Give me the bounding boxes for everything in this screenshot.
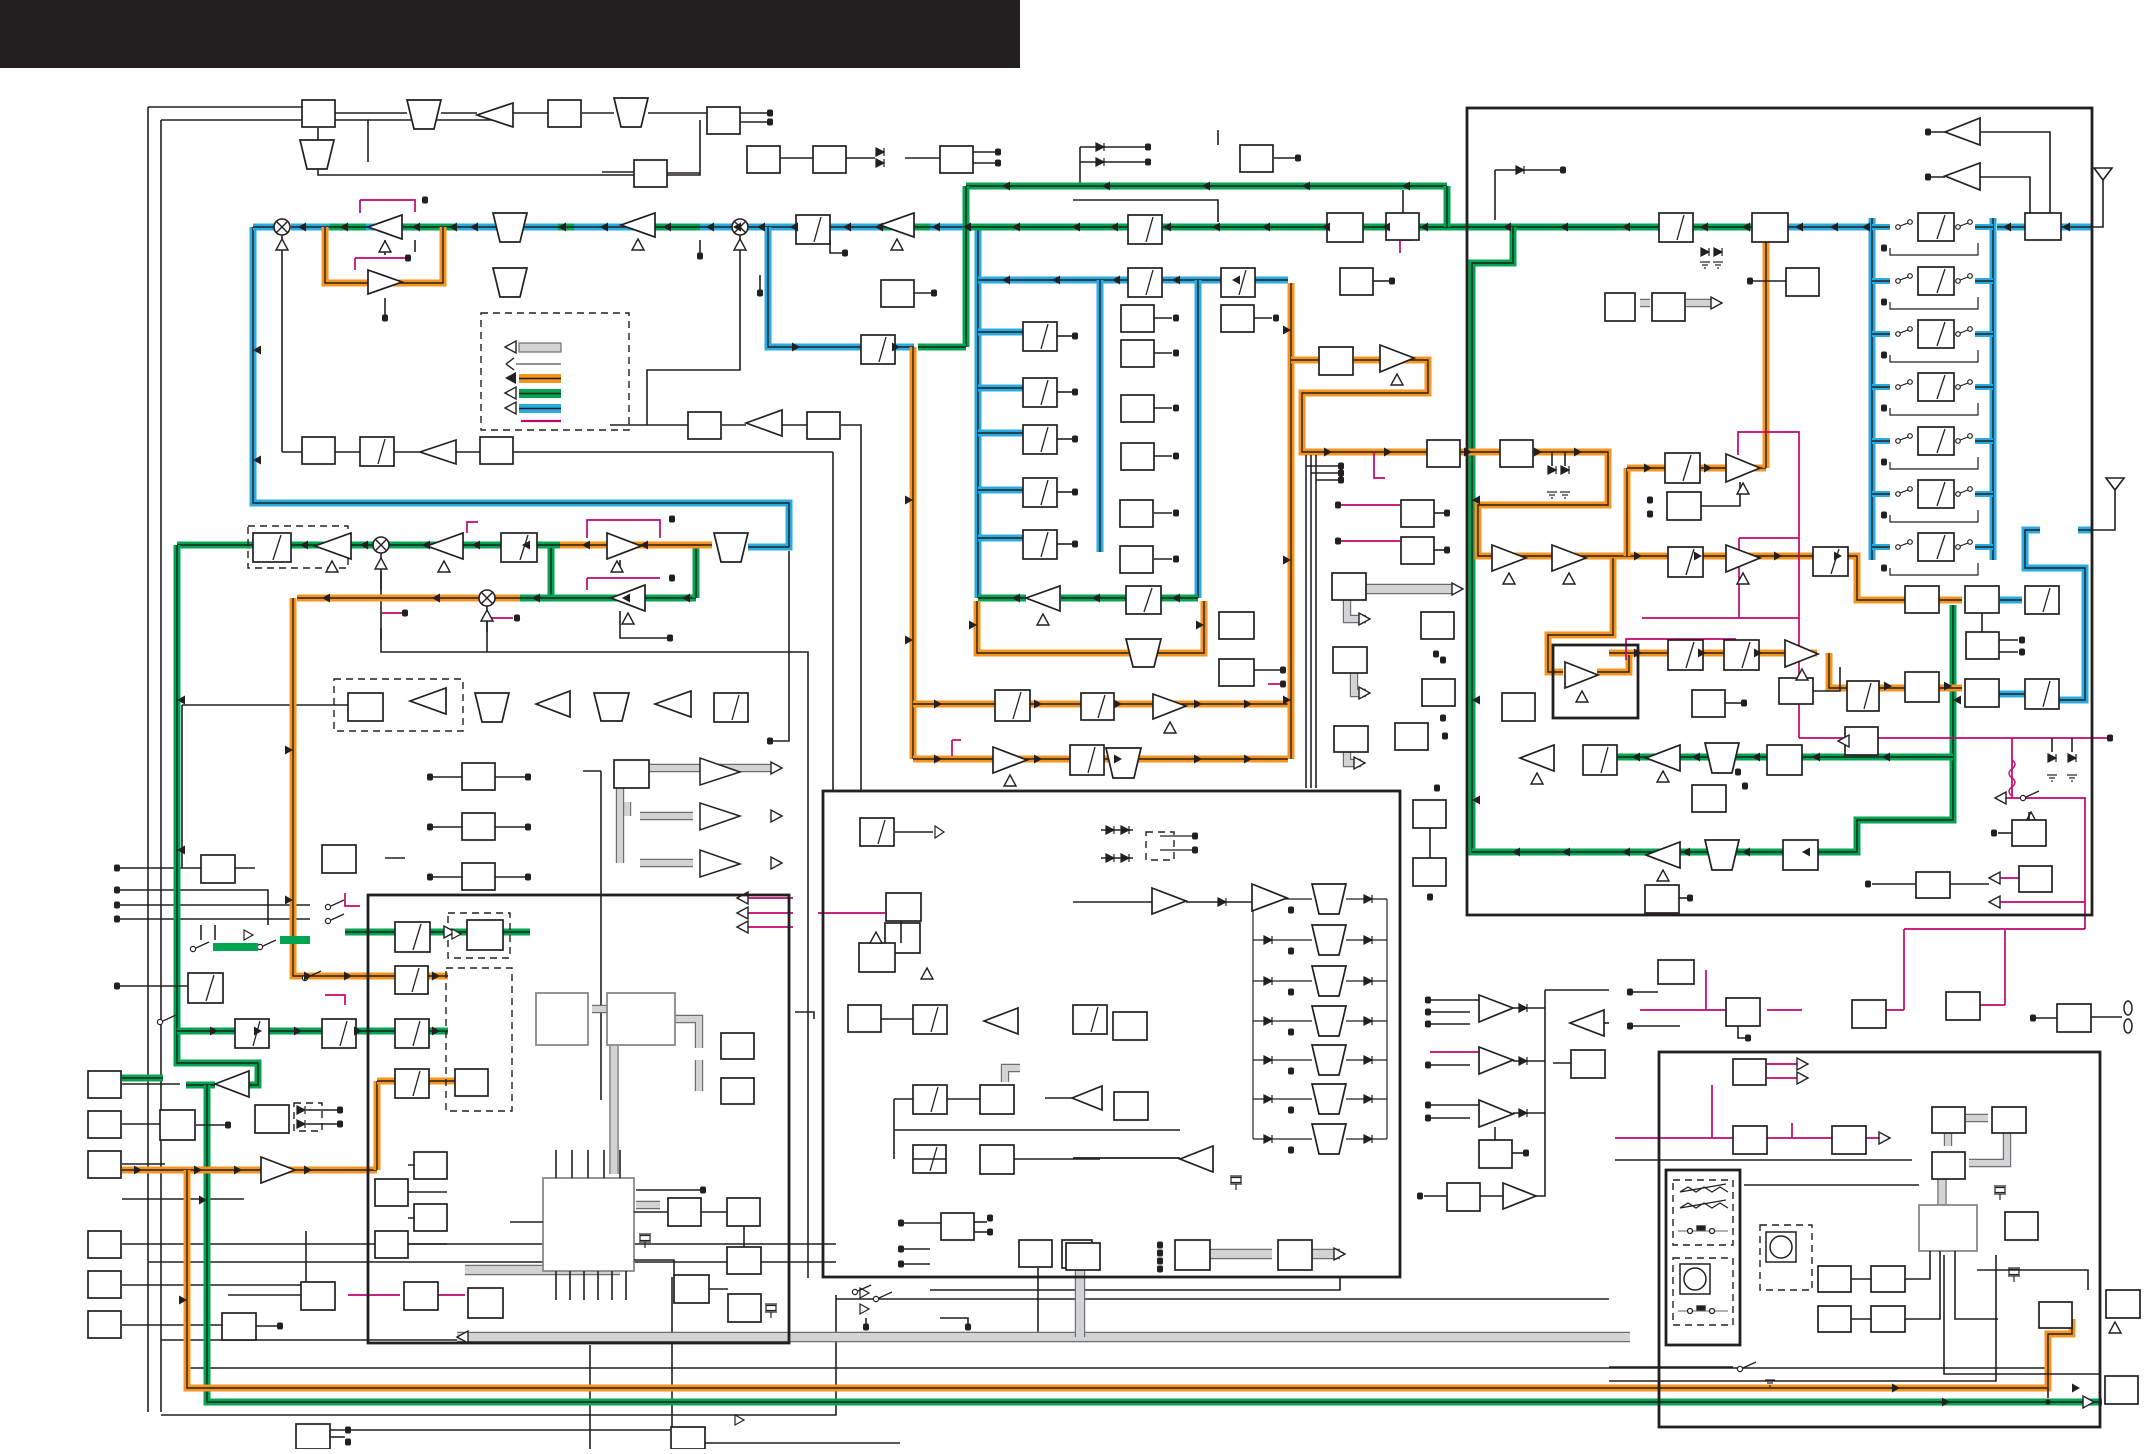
wire bus a	[1305, 455, 1307, 788]
green seg on bus	[880, 224, 930, 231]
orange carrier row	[297, 595, 520, 602]
bus arrowhead	[532, 594, 540, 603]
amp bias mark	[1391, 374, 1403, 385]
wire	[235, 867, 255, 869]
legend green centerline	[519, 393, 561, 395]
diode	[1264, 1017, 1272, 1025]
RX bandpass 2	[1705, 840, 1739, 870]
bus arrowhead	[1110, 223, 1118, 232]
green drop	[1444, 186, 1451, 227]
shift reg 1	[375, 1179, 408, 1206]
tri mark	[2109, 1322, 2121, 1333]
gray ctrl arrowhead	[1452, 583, 1463, 595]
blue stub	[2078, 527, 2092, 534]
dashed knob outline	[1673, 1258, 1733, 1325]
diode	[2048, 754, 2056, 762]
mod amp 1	[607, 533, 641, 559]
wire ref	[120, 985, 188, 987]
wire	[430, 776, 462, 778]
wire panel row 2	[1744, 1184, 1919, 1186]
stub	[1373, 280, 1389, 282]
tag	[337, 1121, 343, 1128]
diode	[1264, 936, 1272, 944]
bus arrowhead	[843, 223, 851, 232]
bus arrowhead	[934, 755, 942, 764]
amp bias mark	[1737, 483, 1749, 494]
stack wire L	[1253, 939, 1312, 941]
off-page connector	[1881, 565, 1887, 572]
amp bias mark	[632, 239, 644, 250]
bus arrowhead	[1212, 223, 1220, 232]
det arrowhead 2	[771, 810, 782, 822]
wire bottom long 3	[187, 1367, 2046, 1369]
line block	[1571, 1050, 1605, 1078]
bank switch left 1	[1896, 220, 1913, 230]
tag	[1425, 1009, 1431, 1016]
diode	[1264, 895, 1272, 903]
tag	[1288, 989, 1294, 996]
bus arrowhead	[432, 972, 440, 981]
mod arrowhead	[444, 926, 455, 938]
bank switch left 4	[1896, 380, 1913, 390]
stack wire L	[1253, 1098, 1312, 1100]
IF crystal filter	[1023, 530, 1057, 559]
notch filter	[1126, 639, 1161, 667]
option block 1	[462, 763, 495, 790]
bus arrowhead	[1634, 649, 1642, 658]
PA amp	[1785, 640, 1818, 667]
bank bypass wire 3	[1890, 350, 1978, 362]
stub	[1154, 317, 1172, 319]
mod amp 2	[611, 585, 645, 611]
orange drive inner loop	[1548, 558, 1613, 672]
bus arrowhead	[360, 541, 368, 550]
purple ctrl	[360, 200, 415, 212]
tag	[767, 110, 773, 117]
tag	[525, 824, 531, 831]
tag	[1072, 333, 1078, 340]
stub	[1254, 317, 1272, 319]
tag	[405, 255, 411, 262]
wire	[759, 275, 761, 290]
tag	[1288, 907, 1294, 914]
key scan 4	[1871, 1306, 1905, 1332]
bus arrowhead	[1114, 700, 1122, 709]
small bus arrowhead	[1359, 613, 1370, 625]
monitor block	[160, 1110, 195, 1140]
off-page connector	[1881, 299, 1887, 306]
bus arrowhead	[412, 223, 420, 232]
tag	[1288, 1068, 1294, 1075]
front panel outline	[1666, 1170, 1740, 1345]
wire	[634, 160, 667, 173]
sw amp 1	[1479, 995, 1513, 1022]
blue loop left	[253, 227, 789, 547]
RF unit outline	[1467, 108, 2092, 915]
bus arrowhead	[449, 223, 457, 232]
gray mem bus 2	[1312, 1249, 1340, 1259]
wire	[1080, 146, 1145, 148]
stub	[865, 1318, 867, 1324]
wire	[122, 1198, 244, 1200]
blue bank stub L3	[1872, 331, 1890, 337]
CW keyer block	[302, 437, 335, 464]
line amp	[1570, 1010, 1604, 1036]
stub	[1928, 131, 1945, 133]
purple ctrl mix2	[487, 617, 513, 619]
tag	[1647, 511, 1653, 518]
bank switch left 6	[1896, 487, 1913, 497]
side tone amp	[261, 1157, 295, 1183]
tag	[1434, 785, 1440, 792]
wire mixer2 loop	[647, 235, 740, 425]
tag	[1627, 989, 1633, 996]
bus arrowhead	[1892, 1384, 1900, 1393]
tag	[1157, 1266, 1163, 1273]
wire bus b	[1310, 455, 1312, 788]
green RX line main bus	[970, 224, 1752, 231]
buffer tri	[244, 930, 253, 940]
gray ctrl arm	[1347, 598, 1366, 619]
wire	[430, 826, 462, 828]
TX amp 1	[315, 533, 351, 559]
off-page connector	[1881, 512, 1887, 519]
tag	[1192, 833, 1198, 840]
orange left rail	[293, 598, 368, 976]
off-page connector	[1273, 315, 1279, 322]
relay driver 3	[1395, 723, 1428, 750]
off-page connector	[931, 290, 937, 297]
IF attenuator	[796, 215, 830, 244]
wire	[900, 921, 902, 943]
bus arrowhead	[1534, 448, 1542, 457]
wire sw row	[1609, 1366, 1733, 1368]
off-page connector	[2019, 637, 2025, 644]
pll block 3	[913, 1145, 946, 1173]
wire	[913, 1158, 946, 1160]
off-page connector	[1389, 278, 1395, 285]
panel io 2	[2039, 1302, 2072, 1328]
off-page connector	[1925, 174, 1931, 181]
IF amp 3	[621, 213, 655, 237]
wire	[1545, 989, 1609, 991]
stub	[1057, 391, 1072, 393]
bus arrow out 2	[700, 803, 740, 830]
main DSP	[607, 993, 675, 1045]
noise blanker	[1221, 305, 1254, 332]
relay driver 2	[1422, 679, 1455, 706]
tag	[1288, 1147, 1294, 1154]
green 2nd IF row	[1061, 595, 1198, 602]
wire	[634, 1211, 668, 1213]
key block	[222, 1313, 256, 1340]
tag	[1072, 389, 1078, 396]
diode	[1364, 1017, 1372, 1025]
wire	[1274, 157, 1295, 159]
tag	[345, 1439, 351, 1446]
off-page connector	[1173, 453, 1179, 460]
LPF stack 7	[1312, 1124, 1346, 1154]
off-page connector	[1444, 547, 1450, 554]
blue PA input line	[1788, 224, 1869, 231]
legend blue centerline	[519, 408, 561, 410]
off-page connector	[1173, 405, 1179, 412]
purple ctrl mix	[381, 612, 403, 614]
wire bottom long 4	[161, 1295, 836, 1415]
stub	[1434, 512, 1444, 514]
bus arrowhead	[472, 541, 480, 550]
purple stub	[1268, 683, 1280, 685]
bus arrowhead	[1194, 700, 1202, 709]
tuner ctrl	[1786, 268, 1819, 296]
wire	[905, 157, 940, 159]
amp bias mark	[1503, 573, 1515, 584]
bus arrowhead	[1322, 223, 1330, 232]
off-page connector	[1173, 556, 1179, 563]
wire	[1738, 1026, 1745, 1038]
bank switch right 6	[1956, 487, 1973, 497]
wire top row 2	[161, 120, 368, 162]
diode	[1561, 466, 1569, 474]
crystal X2	[765, 1304, 777, 1318]
stub	[914, 292, 931, 294]
purple rit	[348, 1294, 400, 1296]
purple sw stub 2	[345, 893, 360, 906]
PLL IC	[707, 107, 740, 134]
wire	[122, 1324, 222, 1326]
wire preamp	[1980, 132, 2050, 213]
stub	[1154, 455, 1172, 457]
purple ctrl	[1400, 240, 1412, 253]
monitor amp	[215, 1071, 249, 1097]
bus arrowhead	[285, 746, 293, 755]
RX switch block	[1767, 745, 1802, 775]
meter block 1	[1401, 500, 1434, 527]
io box 4	[1946, 992, 1980, 1020]
purple rit 2	[438, 1294, 465, 1296]
diode	[1121, 826, 1129, 834]
in block 3	[88, 1151, 121, 1178]
meter block 4	[1916, 872, 1950, 898]
bus arrowhead	[1002, 276, 1010, 285]
notch filter block	[1126, 586, 1161, 614]
stub	[1154, 407, 1172, 409]
diode	[876, 148, 884, 156]
speaker block	[2105, 1376, 2138, 1404]
wire	[1073, 901, 1152, 903]
tag	[898, 1220, 904, 1227]
tag	[669, 575, 675, 582]
ref osc	[859, 943, 895, 972]
stub	[1431, 1064, 1470, 1066]
crystal X5	[2008, 1268, 2020, 1282]
bus arrowhead	[340, 223, 348, 232]
purple panel out 1	[1767, 1063, 1808, 1065]
wire	[709, 1288, 728, 1290]
wire	[636, 1189, 700, 1191]
det amp	[536, 691, 570, 717]
sw amp 4	[1503, 1183, 1536, 1209]
bus arrowhead	[1834, 552, 1842, 561]
RIT driver	[404, 1282, 438, 1310]
bus arrowhead	[1953, 696, 1961, 705]
amp bias mark	[1004, 775, 1016, 786]
buffer amp	[477, 103, 513, 127]
roofing filter	[861, 335, 895, 364]
blue bank stub R2	[1975, 278, 1993, 284]
bottom io 2	[671, 1427, 705, 1449]
bus arrowhead	[254, 1027, 262, 1036]
bus arrowhead	[1704, 464, 1712, 473]
blue stub filter	[978, 535, 1023, 542]
tag	[863, 1324, 869, 1331]
ground	[2047, 775, 2057, 781]
wire	[380, 572, 382, 590]
bus arrowhead	[1830, 223, 1838, 232]
bank bypass wire 2	[1890, 297, 1978, 309]
diode	[1364, 1056, 1372, 1064]
bus arrowhead	[932, 223, 940, 232]
wire	[1494, 170, 1496, 220]
tag	[1072, 541, 1078, 548]
RX front amp	[1520, 745, 1554, 771]
wire	[117, 918, 310, 920]
bus arrowhead	[294, 1027, 302, 1036]
PA bias block	[1667, 492, 1701, 520]
cpu pin wire 2	[603, 1150, 605, 1178]
blue antenna line	[1997, 224, 2092, 231]
bus arrowhead	[1644, 464, 1652, 473]
legend purple sample	[521, 420, 561, 422]
blue stub filter	[978, 487, 1023, 494]
green monitor seg	[186, 1082, 215, 1089]
wire	[1977, 1270, 2088, 1290]
LPF stack 1	[1312, 884, 1346, 914]
tag	[1991, 830, 1997, 837]
ant relay 3	[1905, 672, 1939, 702]
tag	[700, 1187, 706, 1194]
wire	[122, 1284, 301, 1286]
bus arrowhead	[1464, 448, 1472, 457]
break-in block	[301, 1282, 335, 1310]
ref filter	[860, 818, 894, 846]
bus arrowhead	[210, 1027, 218, 1036]
diode	[1264, 977, 1272, 985]
stack wire R	[1346, 898, 1387, 900]
bandpass filter bank 1	[1918, 213, 1954, 241]
tag	[1072, 436, 1078, 443]
amp bias mark	[1164, 722, 1176, 733]
stub	[1434, 549, 1444, 551]
bus arrowhead	[1072, 223, 1080, 232]
wire down	[600, 771, 602, 1100]
wire left rail B	[160, 120, 162, 1412]
off-page connector	[1881, 405, 1887, 412]
stub	[1872, 883, 1916, 885]
PLL filter C	[395, 1019, 429, 1048]
dashed encoder outline	[1760, 1225, 1812, 1290]
tag	[1425, 1021, 1431, 1028]
wire mixer down	[281, 235, 283, 452]
stub	[2036, 1017, 2057, 1019]
audio amp	[420, 440, 456, 464]
stub	[1564, 452, 1566, 466]
stub	[306, 1109, 337, 1111]
tag	[767, 119, 773, 126]
stub	[196, 1124, 225, 1126]
antenna 1	[2094, 168, 2112, 194]
bus arrowhead	[1102, 182, 1110, 191]
wire	[830, 240, 842, 253]
gray bus branch 2	[465, 1265, 620, 1275]
gray ctrl bus	[1366, 584, 1455, 594]
bus arrowhead	[298, 223, 306, 232]
LCD block	[1932, 1107, 1965, 1133]
wire long mid 2	[832, 452, 834, 791]
wire	[1402, 190, 1404, 213]
IO expander 2	[1333, 647, 1367, 673]
tag	[1440, 657, 1446, 664]
knob 1	[1680, 1264, 1710, 1294]
purple seg 2	[1995, 901, 2085, 903]
diode	[1519, 1057, 1527, 1065]
reg block	[1066, 1243, 1100, 1270]
cpu pin wire 2	[571, 1150, 573, 1178]
tag	[1335, 502, 1341, 509]
wire	[660, 172, 700, 174]
wire	[441, 112, 477, 114]
blue 1st IF line main bus	[291, 224, 970, 231]
stub	[1999, 651, 2018, 653]
green loop rise	[693, 545, 700, 598]
memory 1	[721, 1033, 754, 1059]
tag	[1072, 489, 1078, 496]
panel switch 1	[1678, 1226, 1728, 1234]
shift reg 4	[375, 1231, 408, 1258]
wire	[117, 890, 268, 925]
wire	[1037, 1268, 1039, 1337]
bus arrowhead	[1742, 848, 1750, 857]
off-page connector	[1881, 245, 1887, 252]
meter amp	[1845, 727, 1878, 755]
latch 2	[1278, 1240, 1312, 1270]
purple net	[1640, 1009, 1726, 1011]
purple ctrl	[354, 258, 356, 270]
panel switch 2	[1678, 1306, 1728, 1314]
crystal X4	[1994, 1186, 2006, 1200]
PA driver 2	[1726, 545, 1760, 572]
tag	[1865, 881, 1871, 888]
purple row	[1904, 928, 2085, 930]
tag	[1735, 769, 1741, 776]
io box 1	[1658, 960, 1694, 984]
bank bypass wire 1	[1890, 243, 1978, 255]
stub	[1057, 491, 1072, 493]
legend orange arrowhead	[505, 372, 516, 384]
bus arrowhead	[322, 594, 330, 603]
stub	[1431, 1117, 1470, 1119]
io block	[1019, 1240, 1052, 1267]
wire	[1429, 828, 1431, 858]
wire	[228, 1294, 301, 1296]
diode	[1364, 977, 1372, 985]
stub	[1057, 335, 1072, 337]
tx drive amp 2	[1252, 884, 1287, 911]
bus arrowhead	[1944, 682, 1952, 691]
bank bypass wire 6	[1890, 510, 1978, 522]
diode	[876, 159, 884, 167]
amp bias mark	[1576, 691, 1588, 702]
